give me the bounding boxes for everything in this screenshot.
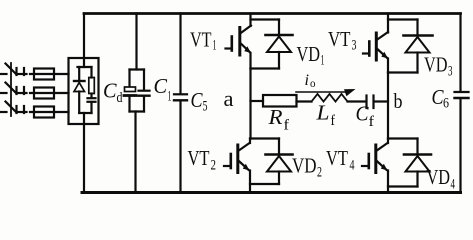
svg-text:d: d [117,90,123,106]
diode VD4 [404,139,431,187]
svg-text:4: 4 [350,158,355,174]
wire VT1 collector drop [249,14,251,27]
switch blade QS phase 1 [6,64,16,74]
svg-text:R: R [267,105,282,129]
svg-text:VT: VT [188,146,210,170]
svg-text:o: o [310,78,316,90]
svg-text:i: i [305,72,310,89]
capacitor C1 [139,70,150,112]
capacitor C6 branch [455,14,469,193]
label VT2 [188,146,217,174]
fuse FU1 [34,69,54,80]
svg-text:VT: VT [190,28,212,52]
wire phase line 3 [0,111,69,113]
wire phase line 2 [0,92,69,94]
wire rectifier bottom feed [83,113,85,193]
wire left leg mid [249,69,251,139]
wire VT3-VD3 bottom connector [388,71,418,73]
label C5 [191,88,208,115]
wire VT3 collector drop [387,14,389,33]
wire Cd C1 bottom connector [130,110,145,112]
wire Cd C1 top connector [130,68,145,70]
wire Cf to node b [375,100,389,102]
svg-text:2: 2 [317,165,322,181]
inductor Lf [312,94,348,102]
svg-text:f: f [369,114,375,130]
svg-text:VD: VD [427,165,451,189]
switch contact ticks phase 3 [17,106,27,113]
svg-text:L: L [315,101,329,125]
wire rectifier top feed [83,14,85,68]
svg-text:a: a [224,86,234,111]
wire Lf to Cf [348,100,366,102]
switch contact ticks phase 1 [17,68,27,75]
svg-text:1: 1 [168,89,172,105]
wire VT4 collector [387,139,389,144]
svg-text:VD: VD [292,154,317,178]
wire VT3-VD3 top connector [388,18,418,20]
svg-text:f: f [331,113,336,129]
svg-text:C: C [191,88,204,112]
svg-text:b: b [394,89,403,113]
svg-text:1: 1 [321,53,325,69]
transistor VT4 [362,143,388,173]
wire DC-link return to bottom rail [134,112,136,193]
diode inside rectifier [74,67,85,113]
label VT1 [190,28,217,54]
label Cf [356,102,375,131]
switch contact ticks phase 2 [17,87,27,94]
wire VT1 emitter [249,53,251,69]
diode VD1 [266,20,293,69]
capacitor C5 branch [174,14,187,193]
wire bottom DC rail [82,191,461,194]
capacitor Cf [367,96,374,109]
rectifier U1 box [69,58,99,124]
svg-text:VD: VD [424,53,448,77]
snubber resistor inside rectifier [89,67,95,98]
svg-text:3: 3 [352,38,357,54]
resistor Rf [263,95,297,107]
wire VT1-VD1 top connector [251,18,280,20]
svg-text:1: 1 [213,38,217,54]
wire VT2 collector [249,139,251,144]
label VD1 [297,42,325,69]
wire VT1-VD1 bottom connector [251,67,280,69]
wire top DC rail [84,12,461,15]
svg-text:3: 3 [448,64,453,80]
switch gang linkage [10,63,12,116]
wire VT4-VD4 top connector [388,137,418,139]
switch blade QS phase 3 [6,102,16,112]
wire rectifier internal top bus [78,66,92,68]
wire DC-link feed from top rail [135,14,137,70]
svg-text:C: C [154,74,168,98]
capacitor Cd electrolytic [124,70,136,112]
wire VT3 emitter [387,59,389,73]
transistor VT3 [363,32,388,60]
fuse FU3 [34,107,54,118]
svg-text:2: 2 [211,158,217,174]
label io [305,72,316,90]
transistor VT1 [226,26,252,56]
fuse FU2 [34,88,54,99]
wire VT4 emitter to rail [387,171,389,193]
svg-text:C: C [356,102,370,126]
svg-text:VT: VT [326,146,348,170]
wire node a to Rf [251,100,264,102]
svg-text:f: f [284,118,290,134]
label Cd [103,79,123,107]
svg-text:VT: VT [328,27,351,51]
svg-text:6: 6 [443,96,449,112]
current arrow io [296,89,356,96]
diode VD3 [404,20,433,73]
label Lf [315,101,335,130]
wire phase line 1 [0,73,69,75]
svg-text:5: 5 [203,99,208,115]
label VD2 [292,154,322,181]
label VT3 [328,27,357,54]
wire VT4-VD4 bottom connector [388,185,418,187]
svg-text:VD: VD [297,42,321,66]
switch blade QS phase 2 [6,83,16,93]
svg-text:4: 4 [451,177,456,193]
wire rectifier internal bottom bus [79,112,91,114]
label Rf [267,105,289,134]
label VD3 [424,53,453,80]
label C1 [154,74,172,105]
snubber capacitor inside rectifier [88,98,96,113]
diode VD2 [266,139,293,185]
label VT4 [326,146,355,174]
wire VT2-VD2 bottom connector [250,183,279,185]
wire right leg mid [387,73,389,139]
wire VT2-VD2 top connector [250,137,279,139]
transistor VT2 [224,143,250,173]
label VD4 [427,165,456,193]
wire VT2 emitter to rail [249,171,251,193]
wire Rf to Lf [297,100,312,102]
svg-text:C: C [103,79,117,103]
label C6 [432,85,450,112]
